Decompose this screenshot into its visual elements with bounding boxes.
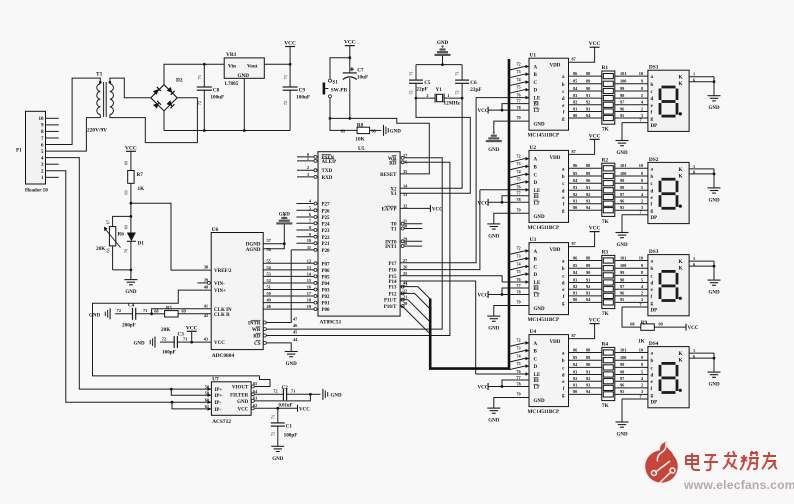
svg-text:P10/T: P10/T — [384, 305, 397, 310]
wire T1 secondary top to bridge left — [110, 78, 151, 98]
svg-text:55: 55 — [267, 258, 271, 263]
svg-text:P02: P02 — [322, 295, 331, 300]
svg-text:72: 72 — [409, 90, 414, 94]
svg-text:K: K — [678, 173, 682, 179]
svg-text:GND: GND — [272, 457, 284, 462]
svg-text:81: 81 — [573, 106, 577, 111]
svg-text:d: d — [651, 374, 654, 379]
svg-text:93: 93 — [586, 199, 590, 204]
svg-text:C5: C5 — [424, 80, 431, 86]
svg-text:AGND: AGND — [246, 248, 261, 253]
svg-text:10: 10 — [639, 163, 643, 168]
svg-text:VR1: VR1 — [226, 52, 237, 58]
svg-text:P14: P14 — [388, 280, 397, 285]
svg-text:C1: C1 — [286, 424, 293, 430]
svg-text:100uF: 100uF — [296, 95, 310, 101]
svg-text:GND: GND — [616, 433, 628, 438]
wire U6 CS to ground — [266, 343, 291, 352]
svg-text:78: 78 — [516, 197, 520, 202]
resistor network R2 7K — [602, 163, 615, 216]
svg-text:85: 85 — [573, 355, 577, 360]
svg-text:P11/T: P11/T — [384, 299, 397, 304]
svg-text:72: 72 — [162, 336, 166, 341]
svg-text:GND: GND — [708, 383, 720, 388]
svg-text:72: 72 — [516, 338, 520, 343]
display DS2 seven segment — [648, 162, 689, 223]
svg-text:69: 69 — [182, 308, 186, 313]
svg-text:LE: LE — [534, 189, 541, 194]
svg-text:VCC: VCC — [299, 407, 310, 412]
svg-text:C7: C7 — [357, 68, 364, 74]
wire U6 INTR to U5 P20 — [266, 250, 291, 323]
svg-text:81: 81 — [573, 383, 577, 388]
svg-text:AT89C51: AT89C51 — [320, 320, 342, 326]
wire P1.2 to U7 IP- pins — [46, 171, 212, 402]
svg-text:d: d — [562, 97, 565, 102]
svg-text:K: K — [678, 81, 682, 87]
svg-text:40: 40 — [204, 285, 208, 290]
svg-text:8: 8 — [641, 362, 643, 367]
ground U4 pin79 — [487, 407, 500, 409]
svg-text:VIOUT: VIOUT — [232, 386, 249, 391]
bus entries U3 A B C D — [509, 251, 525, 255]
svg-text:IP-: IP- — [214, 408, 221, 413]
svg-text:81: 81 — [573, 291, 577, 296]
resistor network R4 7K — [602, 347, 615, 400]
wire P1.4 to U7 IP+ pins — [46, 158, 212, 389]
svg-text:53: 53 — [267, 271, 271, 276]
svg-text:82: 82 — [573, 284, 577, 289]
svg-text:99: 99 — [620, 362, 624, 367]
svg-text:VCC: VCC — [589, 318, 601, 324]
resistor network R3 7K — [602, 255, 615, 308]
svg-text:P05: P05 — [322, 275, 331, 280]
svg-text:72: 72 — [516, 154, 520, 159]
svg-text:VDD: VDD — [550, 64, 561, 69]
svg-text:69: 69 — [123, 190, 128, 194]
svg-text:89: 89 — [586, 171, 590, 176]
svg-text:72: 72 — [273, 388, 277, 393]
svg-text:1: 1 — [693, 164, 695, 169]
svg-text:1: 1 — [693, 72, 695, 77]
svg-text:91: 91 — [586, 185, 590, 190]
svg-text:12: 12 — [307, 258, 311, 263]
svg-text:100: 100 — [620, 355, 626, 360]
svg-text:5: 5 — [309, 205, 311, 210]
svg-text:LT: LT — [534, 386, 541, 391]
svg-text:D: D — [534, 181, 538, 186]
svg-text:3: 3 — [307, 172, 309, 177]
svg-text:18: 18 — [307, 298, 311, 303]
svg-text:89: 89 — [586, 263, 590, 268]
svg-text:www.elecfans.com: www.elecfans.com — [683, 478, 794, 492]
svg-text:1: 1 — [447, 93, 449, 98]
svg-text:5: 5 — [641, 93, 643, 98]
wire U7 VCC pin to VCC tick — [254, 407, 297, 409]
svg-text:MC14511BCP: MC14511BCP — [528, 317, 561, 323]
ground U2 pin79 — [487, 223, 500, 225]
decoder U4 MC14511BCP — [529, 335, 569, 407]
svg-text:T1: T1 — [391, 228, 397, 233]
svg-text:ACS712: ACS712 — [212, 419, 231, 425]
wire crystal right to X2 — [400, 98, 462, 188]
svg-text:9: 9 — [641, 355, 643, 360]
svg-text:8: 8 — [641, 270, 643, 275]
svg-text:41: 41 — [204, 303, 208, 308]
svg-text:2: 2 — [641, 199, 643, 204]
svg-text:GND: GND — [488, 327, 500, 332]
svg-text:RD: RD — [389, 161, 397, 166]
svg-text:S1: S1 — [332, 80, 338, 86]
svg-text:VIN+: VIN+ — [214, 289, 226, 294]
svg-text:2: 2 — [307, 165, 309, 170]
bus entries U2 A B C D — [509, 159, 525, 163]
mcu U5 AT89C51 — [318, 152, 400, 316]
svg-text:INT1: INT1 — [385, 245, 397, 250]
svg-text:VCC: VCC — [478, 201, 489, 206]
wire VREF node to U6 VREF/2 pin 38 — [131, 203, 211, 270]
power VCC above C7 — [345, 45, 355, 47]
svg-text:VCC: VCC — [478, 294, 489, 299]
bus BCD data thick bus — [430, 59, 509, 369]
svg-text:d: d — [651, 189, 654, 194]
svg-text:DP: DP — [651, 124, 658, 129]
svg-text:5: 5 — [641, 369, 643, 374]
svg-text:VREF/2: VREF/2 — [214, 269, 232, 274]
svg-text:BI: BI — [534, 103, 539, 108]
svg-text:VCC: VCC — [589, 41, 601, 47]
svg-text:GND: GND — [534, 123, 546, 128]
svg-text:U2: U2 — [530, 145, 537, 151]
svg-text:68: 68 — [105, 248, 110, 252]
svg-text:100pF: 100pF — [162, 350, 176, 356]
svg-text:75: 75 — [516, 85, 520, 90]
svg-text:C6: C6 — [470, 80, 477, 86]
svg-text:85: 85 — [573, 79, 577, 84]
svg-text:GND: GND — [437, 41, 449, 46]
svg-text:15: 15 — [307, 278, 311, 283]
svg-text:71: 71 — [283, 75, 288, 79]
svg-text:9: 9 — [309, 232, 311, 237]
resistor network R1 7K — [602, 71, 615, 124]
svg-text:67: 67 — [105, 220, 110, 224]
svg-text:VDD: VDD — [550, 248, 561, 253]
capacitor C8 100uF — [203, 63, 206, 66]
svg-text:1: 1 — [693, 348, 695, 353]
svg-text:d: d — [651, 97, 654, 102]
svg-text:91: 91 — [586, 369, 590, 374]
svg-text:78: 78 — [516, 381, 520, 386]
capacitor C4 200pF — [136, 313, 152, 315]
svg-text:38: 38 — [204, 265, 208, 270]
pins U5 P27-P20 — [296, 203, 318, 205]
svg-text:U4: U4 — [530, 329, 537, 335]
display DS3 seven segment — [648, 255, 689, 316]
svg-text:R9: R9 — [641, 320, 648, 326]
svg-text:83: 83 — [573, 185, 577, 190]
svg-text:U1: U1 — [530, 53, 537, 59]
ground DS1 DP — [621, 123, 623, 141]
svg-text:CS: CS — [254, 342, 261, 347]
svg-text:P16: P16 — [388, 269, 397, 274]
svg-text:78: 78 — [516, 105, 520, 110]
svg-text:85: 85 — [573, 263, 577, 268]
svg-text:7K: 7K — [602, 311, 609, 317]
svg-text:72: 72 — [516, 246, 520, 251]
svg-text:GND: GND — [89, 313, 101, 318]
svg-text:1: 1 — [693, 256, 695, 261]
svg-text:88: 88 — [586, 255, 590, 260]
svg-text:D: D — [534, 273, 538, 278]
svg-text:79: 79 — [516, 115, 520, 120]
svg-text:d: d — [562, 374, 565, 379]
svg-text:P04: P04 — [322, 282, 331, 287]
svg-text:48: 48 — [267, 304, 271, 309]
svg-text:LE: LE — [534, 281, 541, 286]
svg-text:71: 71 — [270, 415, 275, 419]
svg-text:71: 71 — [291, 388, 295, 393]
svg-text:68: 68 — [630, 322, 634, 327]
svg-text:98: 98 — [620, 277, 624, 282]
display DS4 seven segment — [648, 347, 689, 408]
svg-text:89: 89 — [586, 355, 590, 360]
svg-text:Vout: Vout — [247, 64, 258, 70]
svg-text:69: 69 — [659, 322, 663, 327]
svg-text:C4: C4 — [128, 303, 135, 309]
svg-text:2: 2 — [641, 106, 643, 111]
svg-text:8: 8 — [641, 86, 643, 91]
connector P1 Header 10 — [26, 111, 46, 184]
capacitor C7 10uF polarized — [349, 58, 351, 73]
svg-text:10: 10 — [307, 238, 311, 243]
svg-text:P17: P17 — [388, 262, 397, 267]
wire ground rail — [164, 130, 290, 132]
svg-text:Vin: Vin — [228, 64, 236, 70]
svg-text:A: A — [534, 342, 538, 347]
ground chassis at C2 — [310, 393, 320, 395]
svg-text:73: 73 — [516, 253, 520, 258]
svg-text:R2: R2 — [602, 157, 609, 163]
svg-text:P07: P07 — [322, 262, 331, 267]
svg-text:80: 80 — [573, 297, 577, 302]
svg-text:82: 82 — [573, 100, 577, 105]
svg-text:68: 68 — [123, 161, 128, 165]
svg-text:WR: WR — [252, 328, 261, 333]
svg-text:39: 39 — [204, 277, 208, 282]
svg-text:99: 99 — [620, 270, 624, 275]
svg-text:R8: R8 — [357, 122, 364, 128]
svg-text:2: 2 — [426, 93, 428, 98]
svg-text:b: b — [651, 267, 654, 272]
ground chassis at C4 — [109, 308, 111, 319]
svg-text:93: 93 — [586, 383, 590, 388]
svg-text:DP: DP — [651, 216, 658, 221]
svg-text:2: 2 — [641, 383, 643, 388]
svg-text:A: A — [534, 250, 538, 255]
svg-text:Y1: Y1 — [436, 87, 443, 93]
svg-text:IP+: IP+ — [214, 394, 222, 399]
svg-text:91: 91 — [586, 93, 590, 98]
svg-text:CLK R: CLK R — [214, 313, 230, 318]
svg-text:T1: T1 — [96, 72, 103, 78]
svg-text:R3: R3 — [602, 250, 609, 256]
svg-text:U6: U6 — [212, 227, 219, 233]
svg-text:GND: GND — [534, 215, 546, 220]
svg-text:U7: U7 — [212, 376, 219, 382]
svg-text:1K: 1K — [138, 186, 145, 192]
svg-text:101: 101 — [620, 163, 626, 168]
wire U2 LE from P16 — [480, 189, 529, 191]
svg-text:5: 5 — [641, 277, 643, 282]
svg-text:BI: BI — [534, 195, 539, 200]
decoder U1 MC14511BCP — [529, 58, 569, 130]
svg-text:L7805: L7805 — [225, 81, 239, 87]
capacitor C6 22pF — [461, 65, 463, 81]
wire crystal left to X1 — [400, 98, 470, 193]
svg-text:D2: D2 — [176, 78, 183, 84]
svg-text:VCC: VCC — [344, 40, 356, 46]
svg-text:79: 79 — [516, 392, 520, 397]
svg-text:C: C — [534, 173, 538, 178]
svg-text:GND: GND — [708, 106, 720, 111]
svg-text:200pF: 200pF — [122, 323, 136, 329]
svg-text:95: 95 — [620, 205, 624, 210]
svg-text:VCC: VCC — [478, 109, 489, 114]
svg-text:P20: P20 — [322, 249, 331, 254]
svg-text:98: 98 — [620, 369, 624, 374]
svg-text:SW-PB: SW-PB — [331, 88, 348, 94]
pin stubs P1 pins 10,9,8,7,3,1 — [46, 117, 59, 119]
svg-text:RD: RD — [253, 335, 261, 340]
svg-text:82: 82 — [573, 192, 577, 197]
svg-text:U5: U5 — [358, 146, 365, 152]
svg-text:LT: LT — [534, 294, 541, 299]
svg-text:43: 43 — [204, 337, 208, 342]
svg-text:90: 90 — [586, 270, 590, 275]
svg-text:10: 10 — [39, 117, 45, 122]
svg-text:22pF: 22pF — [416, 87, 427, 93]
svg-text:C3: C3 — [178, 332, 185, 338]
capacitor C5 22pF — [415, 65, 417, 81]
svg-text:83: 83 — [573, 277, 577, 282]
svg-text:b: b — [562, 83, 565, 88]
wire P1.5 to T1 primary bottom — [46, 115, 101, 152]
svg-text:P12: P12 — [388, 292, 397, 297]
svg-text:GND: GND — [286, 362, 298, 367]
svg-text:75: 75 — [516, 269, 520, 274]
svg-text:101: 101 — [620, 71, 626, 76]
svg-text:MC14511BCP: MC14511BCP — [528, 409, 561, 415]
svg-text:GND: GND — [534, 399, 546, 404]
svg-text:C: C — [534, 81, 538, 86]
wire bridge top to +rail — [164, 64, 224, 84]
svg-text:P13: P13 — [388, 286, 397, 291]
svg-text:49: 49 — [267, 298, 271, 303]
svg-text:72: 72 — [283, 101, 288, 105]
svg-text:GND: GND — [488, 234, 500, 239]
svg-text:GND: GND — [331, 393, 343, 398]
svg-text:X1: X1 — [390, 192, 397, 197]
svg-text:72: 72 — [117, 308, 121, 313]
svg-text:80: 80 — [573, 113, 577, 118]
svg-text:R1: R1 — [602, 65, 609, 71]
svg-text:GND: GND — [616, 243, 628, 248]
svg-text:DS4: DS4 — [649, 341, 659, 347]
capacitor C2 filter — [254, 393, 283, 395]
bus entries U4 A B C D — [509, 343, 525, 347]
display DS1 seven segment — [648, 70, 689, 131]
svg-text:85: 85 — [573, 171, 577, 176]
svg-text:VCC: VCC — [237, 407, 248, 412]
svg-text:INTR: INTR — [248, 322, 261, 327]
svg-text:12MHz: 12MHz — [444, 101, 461, 107]
crystal Y1 12MHz — [415, 97, 418, 100]
decoder U3 MC14511BCP — [529, 243, 569, 315]
svg-text:90: 90 — [586, 86, 590, 91]
svg-text:GND: GND — [238, 73, 250, 79]
svg-text:95: 95 — [620, 297, 624, 302]
bridge rectifier D2 — [151, 85, 177, 111]
svg-text:P22: P22 — [322, 236, 331, 241]
svg-text:C9: C9 — [299, 88, 306, 94]
svg-text:GND: GND — [708, 291, 720, 296]
svg-text:8: 8 — [309, 225, 311, 230]
svg-text:220V/9V: 220V/9V — [87, 128, 107, 134]
svg-text:20K: 20K — [96, 246, 105, 252]
svg-text:U3: U3 — [530, 237, 537, 243]
svg-text:72: 72 — [270, 432, 275, 436]
capacitor C9 100uF — [289, 64, 291, 87]
power VCC above R7 — [126, 150, 136, 152]
svg-text:C2: C2 — [282, 385, 289, 391]
transformer T1 — [97, 84, 101, 115]
svg-text:73: 73 — [516, 345, 520, 350]
svg-text:R4: R4 — [602, 342, 609, 348]
svg-text:100uF: 100uF — [210, 95, 224, 101]
svg-text:MC14511BCP: MC14511BCP — [528, 225, 561, 231]
svg-text:98: 98 — [620, 93, 624, 98]
svg-text:Header 10: Header 10 — [25, 188, 48, 194]
resistor R5 20K — [152, 313, 165, 315]
svg-text:9: 9 — [641, 263, 643, 268]
resistor R9 1K from DS3 DP to VCC — [622, 307, 641, 327]
svg-text:10K: 10K — [355, 136, 364, 142]
svg-text:D: D — [534, 89, 538, 94]
svg-text:DP: DP — [651, 308, 658, 313]
svg-text:d: d — [562, 282, 565, 287]
svg-text:35: 35 — [403, 169, 407, 174]
svg-text:92: 92 — [586, 100, 590, 105]
svg-text:13: 13 — [307, 265, 311, 270]
svg-text:79: 79 — [516, 207, 520, 212]
svg-text:GND: GND — [134, 342, 146, 347]
svg-text:C8: C8 — [213, 88, 220, 94]
svg-text:GND: GND — [237, 400, 249, 405]
svg-text:VCC: VCC — [214, 341, 225, 346]
svg-text:72: 72 — [516, 61, 520, 66]
svg-text:80: 80 — [573, 205, 577, 210]
svg-text:70: 70 — [124, 249, 129, 253]
svg-text:100: 100 — [620, 171, 626, 176]
svg-text:A: A — [534, 66, 538, 71]
svg-text:99: 99 — [620, 86, 624, 91]
svg-text:K: K — [678, 358, 682, 364]
wire VR1 GND lead — [243, 78, 245, 130]
svg-text:DP: DP — [651, 400, 658, 405]
svg-text:R5: R5 — [166, 306, 172, 311]
svg-text:K: K — [678, 167, 682, 173]
svg-text:83: 83 — [573, 369, 577, 374]
